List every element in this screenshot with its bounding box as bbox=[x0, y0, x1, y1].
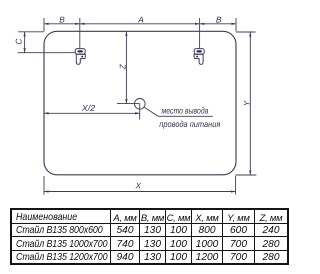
svg-text:X/2: X/2 bbox=[81, 103, 95, 113]
svg-text:A: A bbox=[137, 14, 144, 24]
svg-text:Z: Z bbox=[118, 63, 128, 70]
svg-text:C: C bbox=[13, 38, 23, 45]
svg-text:B: B bbox=[59, 14, 65, 24]
svg-text:B: B bbox=[216, 15, 222, 25]
svg-text:провода питания: провода питания bbox=[159, 119, 220, 129]
svg-text:Y: Y bbox=[241, 99, 251, 106]
svg-text:X: X bbox=[135, 181, 142, 191]
svg-text:место вывода: место вывода bbox=[162, 106, 209, 116]
